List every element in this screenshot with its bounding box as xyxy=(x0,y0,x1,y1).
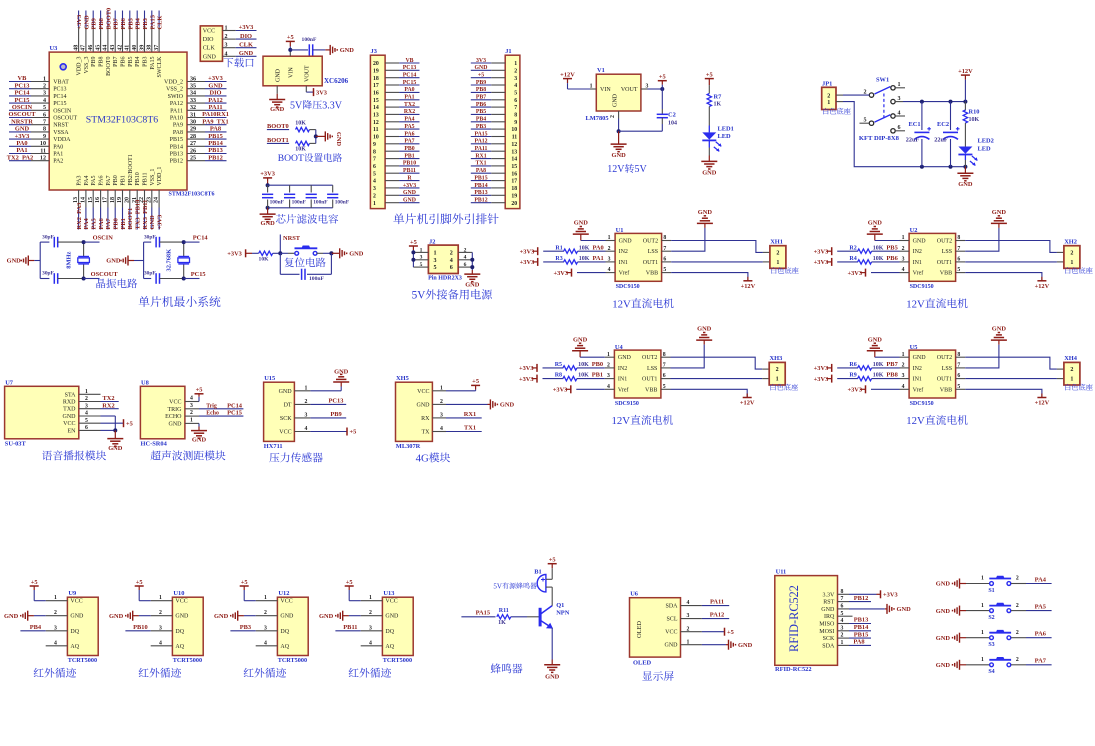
svg-text:16: 16 xyxy=(373,91,379,97)
svg-text:37: 37 xyxy=(154,45,160,51)
svg-text:5: 5 xyxy=(841,611,844,617)
connector J3 xyxy=(370,48,385,209)
svg-text:OSCIN: OSCIN xyxy=(53,108,72,114)
capacitor 100nF filter 3 xyxy=(306,185,329,208)
svg-text:OUT2: OUT2 xyxy=(937,355,952,361)
svg-text:+12V: +12V xyxy=(560,71,575,78)
svg-text:+3V3: +3V3 xyxy=(553,270,568,277)
svg-text:SDC9150: SDC9150 xyxy=(910,401,934,407)
svg-text:PA7: PA7 xyxy=(105,217,112,229)
resistor R10 10K xyxy=(963,102,979,147)
svg-text:VCC: VCC xyxy=(279,430,291,436)
J3 pin 1 net GND xyxy=(373,198,420,207)
ground GND pin xyxy=(269,86,285,113)
svg-text:GND: GND xyxy=(665,643,679,649)
svg-text:12V: 12V xyxy=(607,164,625,175)
wire U1 OUT2 to XH1 xyxy=(671,241,770,253)
svg-text:3: 3 xyxy=(305,413,308,419)
U3 pin 36 VDD_2 net +3V3 xyxy=(164,75,227,85)
svg-text:RX1: RX1 xyxy=(475,153,486,159)
connector download port xyxy=(200,26,222,61)
J2 pins 5 6 xyxy=(413,262,472,271)
svg-text:43: 43 xyxy=(110,45,116,51)
svg-text:JP1: JP1 xyxy=(822,80,832,87)
svg-text:12: 12 xyxy=(511,142,517,148)
svg-text:6: 6 xyxy=(663,257,666,263)
svg-text:5: 5 xyxy=(957,267,960,273)
svg-text:GND: GND xyxy=(417,402,431,408)
svg-text:1: 1 xyxy=(776,260,779,266)
svg-text:PC15: PC15 xyxy=(15,97,30,104)
U3 pin 4 PC15 net PC15 xyxy=(9,97,67,107)
svg-text:5: 5 xyxy=(663,384,666,390)
svg-text:PB11: PB11 xyxy=(143,172,149,185)
svg-text:30pF: 30pF xyxy=(42,271,54,277)
svg-text:2: 2 xyxy=(264,610,267,616)
power +3V3 U4 Vref xyxy=(553,385,605,393)
net PA5 xyxy=(1026,603,1052,610)
switch SW1 KFT DIP-8X8 xyxy=(859,77,905,142)
capacitor C2 104 xyxy=(657,89,677,131)
svg-text:PC13: PC13 xyxy=(53,87,66,93)
svg-text:VCC: VCC xyxy=(175,599,187,605)
J2 pins 1 2 xyxy=(413,247,472,256)
svg-text:LED: LED xyxy=(718,133,732,140)
caption crystal circuit xyxy=(96,278,137,288)
wire VOUT to +5 xyxy=(641,74,667,92)
svg-text:GND: GND xyxy=(698,209,713,216)
svg-text:CLK: CLK xyxy=(157,16,164,30)
svg-text:PC13: PC13 xyxy=(329,398,344,405)
svg-text:+3V3: +3V3 xyxy=(403,183,416,189)
U3 pin 32 PA11 net PA11 xyxy=(170,104,226,114)
svg-text:C2: C2 xyxy=(668,111,676,118)
svg-text:100nF: 100nF xyxy=(270,200,285,206)
svg-text:GND: GND xyxy=(83,15,90,30)
svg-text:2: 2 xyxy=(1016,630,1019,636)
U3 pin 29 PA8 net PA8 xyxy=(173,126,227,136)
motor driver U1 SDC9150 xyxy=(615,227,662,290)
svg-text:1: 1 xyxy=(373,201,376,207)
J3 pin 16 net PA0 xyxy=(373,87,420,96)
svg-text:TX2: TX2 xyxy=(102,395,114,402)
node PC15 xyxy=(182,271,206,280)
svg-text:PB1: PB1 xyxy=(592,372,603,379)
svg-text:35: 35 xyxy=(190,84,196,90)
connector XH3 xyxy=(769,355,798,390)
svg-text:2: 2 xyxy=(373,193,376,199)
svg-text:ML307R: ML307R xyxy=(396,443,421,450)
svg-text:SDC9150: SDC9150 xyxy=(616,284,640,290)
U3 pin 42 PB6 net PB6 xyxy=(117,11,127,67)
svg-text:10: 10 xyxy=(373,135,379,141)
net PA12 xyxy=(702,612,729,619)
svg-text:HC-SR04: HC-SR04 xyxy=(141,441,168,448)
svg-text:1: 1 xyxy=(827,100,830,106)
connector JP1 xyxy=(822,80,851,114)
svg-text:2: 2 xyxy=(43,84,46,90)
svg-text:R11: R11 xyxy=(499,608,509,614)
U3 pin 3 PC14 net PC14 xyxy=(9,90,67,100)
node OSCIN xyxy=(82,235,114,244)
motor driver U2 SDC9150 xyxy=(909,227,956,290)
svg-text:PA11: PA11 xyxy=(475,146,488,152)
svg-text:1: 1 xyxy=(590,83,593,89)
svg-text:OUT1: OUT1 xyxy=(937,377,952,383)
svg-text:17: 17 xyxy=(511,179,517,185)
svg-text:GND: GND xyxy=(203,54,217,60)
LED2 xyxy=(958,138,993,167)
U5 pin 5 xyxy=(956,384,966,390)
capacitor 30pF bottom xyxy=(144,271,184,284)
svg-text:TX1: TX1 xyxy=(464,425,476,432)
svg-text:OSCIN: OSCIN xyxy=(12,104,33,111)
net PA15 wire xyxy=(461,610,495,617)
connector J1 xyxy=(505,48,520,209)
U3 pin 43 PB7 net PB7 xyxy=(110,11,120,67)
svg-text:PA11: PA11 xyxy=(208,104,222,111)
power +3V3 reset xyxy=(227,249,258,257)
power +3V3 U1 Vref xyxy=(553,269,605,277)
svg-text:GND: GND xyxy=(169,421,183,427)
U2 pin 6 xyxy=(956,257,966,263)
svg-text:3: 3 xyxy=(902,257,905,263)
svg-text:NRST: NRST xyxy=(53,123,69,129)
svg-text:STM32F103C8T6: STM32F103C8T6 xyxy=(86,114,159,125)
ground reset xyxy=(331,248,363,258)
svg-text:PA4: PA4 xyxy=(84,175,90,185)
svg-text:TXD: TXD xyxy=(63,407,76,413)
U7 pin 6 xyxy=(79,425,101,431)
svg-text:8: 8 xyxy=(663,235,666,241)
svg-text:MISO: MISO xyxy=(819,622,835,628)
svg-text:OLED: OLED xyxy=(636,621,643,638)
svg-text:PA11: PA11 xyxy=(710,599,724,606)
wire U4 OUT1 to XH3 xyxy=(671,378,770,380)
svg-text:+3V3: +3V3 xyxy=(814,365,829,372)
svg-text:2: 2 xyxy=(776,367,779,373)
svg-text:2: 2 xyxy=(85,396,88,402)
svg-text:+5: +5 xyxy=(478,73,484,79)
power +3V3 U4 input 1 xyxy=(519,364,563,372)
svg-text:PB10: PB10 xyxy=(135,172,141,185)
svg-text:PB10: PB10 xyxy=(403,161,416,167)
svg-text:Trig: Trig xyxy=(206,403,217,409)
svg-text:27: 27 xyxy=(190,141,196,147)
resistor R11 1K xyxy=(497,608,539,626)
svg-text:SCK: SCK xyxy=(280,416,292,422)
svg-text:PA11: PA11 xyxy=(170,108,183,114)
svg-text:3: 3 xyxy=(687,613,690,619)
svg-text:PA7: PA7 xyxy=(1035,658,1047,665)
svg-text:GND: GND xyxy=(385,614,399,620)
svg-text:+3V3: +3V3 xyxy=(239,24,254,31)
svg-text:4: 4 xyxy=(902,384,905,390)
svg-text:PB9: PB9 xyxy=(330,411,341,418)
svg-text:38: 38 xyxy=(147,45,153,51)
U10 pin 4 xyxy=(151,640,173,646)
svg-text:IRQ: IRQ xyxy=(824,614,835,620)
svg-text:PB15: PB15 xyxy=(474,175,487,181)
svg-text:PB4: PB4 xyxy=(30,624,42,631)
svg-text:2: 2 xyxy=(610,115,616,118)
svg-text:7: 7 xyxy=(663,363,666,369)
svg-text:3V3: 3V3 xyxy=(476,58,486,64)
svg-text:STA: STA xyxy=(65,392,77,398)
power +5 U13 xyxy=(345,579,361,601)
svg-text:10K: 10K xyxy=(295,146,306,152)
svg-text:2: 2 xyxy=(841,633,844,639)
svg-text:XH2: XH2 xyxy=(1064,238,1077,245)
svg-text:23: 23 xyxy=(146,197,152,203)
U3 pin 45 PB8 net PB8 xyxy=(95,11,105,67)
svg-text:PB15: PB15 xyxy=(170,137,183,143)
svg-text:10: 10 xyxy=(40,141,46,147)
ground S4 xyxy=(936,660,990,670)
svg-text:J2: J2 xyxy=(429,238,435,245)
svg-text:IN1: IN1 xyxy=(618,377,627,383)
ultrasonic module U8 HC-SR04 xyxy=(140,379,185,447)
ground S3 xyxy=(936,633,990,643)
svg-text:2: 2 xyxy=(607,363,610,369)
svg-text:31: 31 xyxy=(190,112,196,118)
svg-text:PB6: PB6 xyxy=(121,57,127,67)
U15 pin 2 xyxy=(294,399,310,405)
svg-text:PB8: PB8 xyxy=(476,87,486,93)
J1 pin 5 net PB8 xyxy=(471,87,517,96)
J3 pin 3 net +3V3 xyxy=(373,183,420,192)
IR tracking module U12 TCRT5000 xyxy=(277,590,308,664)
svg-text:RX2 PA3: RX2 PA3 xyxy=(76,203,83,230)
svg-text:6: 6 xyxy=(663,373,666,379)
U15 pin 3 xyxy=(294,413,310,419)
connector J2 Pin HDR2X3 xyxy=(428,238,462,281)
svg-text:8: 8 xyxy=(373,149,376,155)
svg-text:6: 6 xyxy=(43,112,46,118)
wire U2 OUT1 to XH2 xyxy=(965,261,1064,263)
svg-text:SDC9150: SDC9150 xyxy=(910,284,934,290)
svg-text:GND: GND xyxy=(868,336,883,343)
U3 pin 14 PA4 net PA4 xyxy=(81,175,91,229)
svg-text:3: 3 xyxy=(264,625,267,631)
svg-text:16: 16 xyxy=(511,171,517,177)
caption IR tracking xyxy=(34,668,76,678)
ground U8 xyxy=(191,423,207,443)
resistor R8 10K xyxy=(555,372,605,381)
svg-text:13: 13 xyxy=(511,149,517,155)
svg-text:2: 2 xyxy=(687,626,690,632)
U3 pin 31 PA10 net PA10RX1 xyxy=(170,111,229,121)
svg-text:2: 2 xyxy=(1016,576,1019,582)
svg-text:100nF: 100nF xyxy=(313,200,328,206)
U6 pin 4 xyxy=(681,600,702,606)
svg-text:PB14: PB14 xyxy=(208,140,223,147)
svg-text:+3V3: +3V3 xyxy=(15,133,30,140)
svg-text:4: 4 xyxy=(440,426,443,432)
svg-text:1: 1 xyxy=(776,377,779,383)
svg-text:GND: GND xyxy=(280,614,294,620)
svg-text:PC15: PC15 xyxy=(227,410,242,417)
svg-text:PB3: PB3 xyxy=(240,624,251,631)
svg-text:TX3 PB10: TX3 PB10 xyxy=(135,200,142,230)
svg-text:PB7: PB7 xyxy=(113,17,120,29)
svg-text:GND: GND xyxy=(613,93,619,107)
resistor R9 10K xyxy=(849,372,899,381)
power +3V3 U1 input 2 xyxy=(520,258,564,266)
svg-text:KFT DIP-8X8: KFT DIP-8X8 xyxy=(859,135,900,142)
svg-text:4: 4 xyxy=(225,51,228,57)
svg-text:PB3: PB3 xyxy=(476,124,486,130)
svg-text:4: 4 xyxy=(54,640,57,646)
crystal circuit 8MHz xyxy=(7,242,50,278)
net PA8 xyxy=(849,639,871,646)
J1 pin 12 net PA12 xyxy=(471,139,518,148)
svg-text:VBAT: VBAT xyxy=(53,80,69,86)
transistor Q1 NPN xyxy=(540,587,570,629)
J1 pin 2 net GND xyxy=(471,65,517,74)
svg-text:PB3: PB3 xyxy=(143,57,149,67)
U3 pin 9 VDDA net +3V3 xyxy=(9,133,71,143)
svg-text:15: 15 xyxy=(511,164,517,170)
U8 pin 2 xyxy=(185,410,199,416)
J3 pin 10 net PA6 xyxy=(373,131,420,140)
power +3V3 RFID xyxy=(849,590,898,598)
svg-text:LSS: LSS xyxy=(648,249,658,255)
svg-text:1: 1 xyxy=(514,61,517,67)
capacitor 100nF filter 2 xyxy=(284,185,307,208)
svg-text:R1: R1 xyxy=(555,245,562,251)
svg-text:AQ: AQ xyxy=(70,644,79,650)
IR tracking module U9 TCRT5000 xyxy=(67,590,98,664)
svg-text:SU-03T: SU-03T xyxy=(5,441,27,448)
ground filter xyxy=(260,208,276,227)
svg-text:6: 6 xyxy=(957,373,960,379)
svg-text:DIO: DIO xyxy=(203,37,214,43)
svg-text:100nF: 100nF xyxy=(309,276,325,282)
download port pin 2 DIO net DIO xyxy=(203,33,257,43)
svg-text:1: 1 xyxy=(1070,377,1073,383)
svg-text:PB12: PB12 xyxy=(170,159,183,165)
svg-text:IN2: IN2 xyxy=(913,366,922,372)
U1 pin 1 xyxy=(606,235,616,241)
svg-text:1: 1 xyxy=(981,576,984,582)
svg-text:GND: GND xyxy=(500,402,515,409)
svg-text:1: 1 xyxy=(981,630,984,636)
svg-text:R5: R5 xyxy=(555,362,562,368)
svg-text:3: 3 xyxy=(85,403,88,409)
svg-text:VBB: VBB xyxy=(645,387,657,393)
pushbutton S1 xyxy=(981,576,1026,594)
svg-text:GND: GND xyxy=(7,258,22,265)
svg-text:8MHz: 8MHz xyxy=(65,252,72,269)
U1 pin 7 xyxy=(662,246,672,252)
svg-text:PA0: PA0 xyxy=(404,87,414,93)
svg-text:MOSI: MOSI xyxy=(819,629,834,635)
caption 12V DC motor xyxy=(612,415,673,427)
svg-text:11: 11 xyxy=(40,148,46,154)
svg-text:4: 4 xyxy=(190,396,193,402)
net Trig PC14 xyxy=(199,402,243,409)
svg-text:VSS_3: VSS_3 xyxy=(84,57,90,74)
svg-text:1: 1 xyxy=(305,385,308,391)
U12 pin 3 xyxy=(256,625,278,631)
svg-text:5: 5 xyxy=(85,418,88,424)
U2 pin 5 xyxy=(956,267,966,273)
svg-text:SDA: SDA xyxy=(665,604,678,610)
caption 12V DC motor xyxy=(906,298,967,310)
svg-text:10: 10 xyxy=(511,127,517,133)
svg-text:BOOT0: BOOT0 xyxy=(105,8,112,30)
net PB14 xyxy=(849,624,871,631)
svg-text:U11: U11 xyxy=(776,569,787,576)
svg-text:PA4: PA4 xyxy=(1035,576,1047,583)
motor driver U5 SDC9150 xyxy=(909,344,956,407)
svg-text:6: 6 xyxy=(514,98,517,104)
J1 pin 13 net PA11 xyxy=(471,146,518,155)
svg-text:12: 12 xyxy=(40,156,46,162)
svg-text:1: 1 xyxy=(981,657,984,663)
ground U13 xyxy=(319,611,361,621)
svg-text:5V: 5V xyxy=(635,164,648,175)
svg-text:PC15: PC15 xyxy=(191,271,206,278)
svg-text:PC13: PC13 xyxy=(15,82,30,89)
svg-text:GND: GND xyxy=(868,220,883,227)
svg-text:GND: GND xyxy=(15,126,30,133)
svg-text:+3V3: +3V3 xyxy=(847,270,862,277)
svg-text:IN1: IN1 xyxy=(913,377,922,383)
svg-text:PC14: PC14 xyxy=(193,235,209,242)
svg-text:LED: LED xyxy=(978,146,992,153)
svg-text:4: 4 xyxy=(369,640,372,646)
svg-text:4: 4 xyxy=(902,267,905,273)
svg-text:GND: GND xyxy=(475,65,488,71)
svg-text:10K: 10K xyxy=(873,256,884,262)
svg-text:2: 2 xyxy=(902,246,905,252)
svg-text:PB13: PB13 xyxy=(854,617,869,624)
svg-text:PB9: PB9 xyxy=(91,18,98,29)
crystal circuit 32.768K xyxy=(106,242,151,278)
svg-text:OUT1: OUT1 xyxy=(937,260,952,266)
U6 pin 1 xyxy=(681,639,702,645)
svg-text:VCC: VCC xyxy=(63,421,75,427)
svg-text:4G: 4G xyxy=(416,453,429,465)
ground U12 xyxy=(214,611,256,621)
svg-text:RX: RX xyxy=(421,416,430,422)
svg-text:Pin HDR2X3: Pin HDR2X3 xyxy=(428,276,462,282)
svg-text:GND: GND xyxy=(913,239,927,245)
svg-text:GND: GND xyxy=(611,152,626,159)
U4 pin 6 xyxy=(661,373,671,379)
power +5 LED1 xyxy=(705,71,714,93)
svg-text:PA8: PA8 xyxy=(476,168,486,174)
svg-text:2: 2 xyxy=(305,399,308,405)
svg-text:+3V3: +3V3 xyxy=(520,259,535,266)
svg-text:PB7: PB7 xyxy=(886,361,898,368)
svg-text:DT: DT xyxy=(284,402,292,408)
svg-text:+3V3: +3V3 xyxy=(814,248,829,255)
svg-text:26: 26 xyxy=(190,148,196,154)
svg-text:PB5: PB5 xyxy=(886,244,897,251)
wire U5 VBB to +12V xyxy=(965,389,1049,406)
svg-text:DIO: DIO xyxy=(240,33,252,40)
svg-text:30pF: 30pF xyxy=(144,234,156,240)
capacitor EC1 22uF xyxy=(906,102,931,167)
svg-text:R6: R6 xyxy=(849,362,856,368)
svg-text:GND: GND xyxy=(697,326,712,333)
svg-text:10K: 10K xyxy=(579,245,590,251)
svg-text:U6: U6 xyxy=(630,591,639,598)
svg-text:PB12: PB12 xyxy=(208,154,223,161)
